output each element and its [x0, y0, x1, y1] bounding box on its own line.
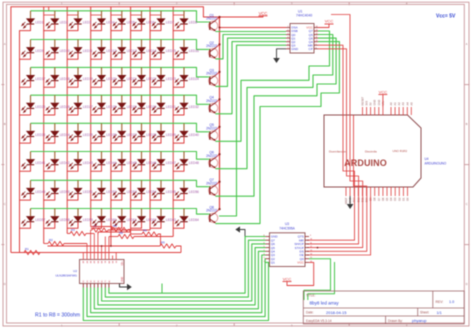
svg-text:LED11: LED11 — [83, 49, 93, 53]
LED LED27 — [67, 95, 93, 115]
pin GND (bottom) — [349, 187, 351, 196]
transistor Q7 2N2222 — [206, 178, 219, 196]
wire resistor output rail — [11, 252, 181, 254]
LED LED12 — [91, 40, 117, 60]
svg-text:LED3: LED3 — [83, 20, 91, 24]
svg-text:D4: D4 — [389, 197, 393, 201]
LED LED50 — [44, 180, 70, 200]
power VCC (top right) — [259, 15, 268, 17]
svg-text:1: 1 — [287, 26, 288, 28]
pin A2 (top) — [398, 107, 400, 115]
svg-text:AREF: AREF — [344, 197, 348, 204]
svg-text:3V3: 3V3 — [365, 100, 369, 105]
wire emitter Q2 to U1 — [215, 35, 286, 59]
LED LED41 — [20, 152, 46, 172]
pin D3 (bottom) — [394, 187, 396, 196]
pin A3 (top) — [402, 107, 404, 115]
svg-text:LED27: LED27 — [83, 105, 93, 109]
pin A0 (top) — [390, 107, 392, 115]
LED LED59 — [67, 209, 93, 229]
LED LED40 — [173, 123, 199, 143]
LED LED46 — [131, 152, 157, 172]
LED LED61 — [111, 209, 137, 229]
wire R7 out — [91, 229, 92, 231]
svg-text:LED13: LED13 — [127, 49, 137, 53]
svg-text:R4: R4 — [113, 224, 117, 228]
svg-text:74HC595A: 74HC595A — [279, 227, 295, 231]
wire emitter Q4 to U1 — [215, 42, 286, 114]
node collector junction Q2 — [218, 43, 220, 45]
svg-text:11: 11 — [316, 37, 318, 39]
svg-text:LED19: LED19 — [83, 77, 93, 81]
svg-text:2: 2 — [263, 257, 264, 259]
svg-text:LED10: LED10 — [60, 49, 70, 53]
wire U1 MR to U3 MR — [307, 45, 355, 240]
svg-text:D6: D6 — [381, 197, 385, 201]
LED LED21 — [111, 67, 137, 87]
IC U3 74HC595A — [263, 233, 312, 267]
wire VCC top bus — [11, 7, 263, 253]
wire Arduino D9 to U3 OE — [307, 196, 371, 255]
svg-text:5C: 5C — [98, 279, 100, 282]
pin GND (top) — [374, 107, 376, 115]
LED LED60 — [91, 209, 117, 229]
power VCC U3 — [287, 262, 314, 285]
svg-text:VCC: VCC — [325, 19, 334, 24]
svg-text:R5: R5 — [161, 241, 165, 245]
wire U1 CP to U3 SH/CP — [307, 49, 359, 244]
wire U2 input pin drops — [82, 253, 84, 260]
svg-text:LED43: LED43 — [83, 161, 93, 165]
wire emitter Q3 to U1 — [215, 38, 286, 86]
wire emitter Q5 to U1 — [215, 31, 329, 141]
wire emitter Q6 to U1 — [215, 35, 332, 169]
svg-text:GND: GND — [291, 47, 299, 51]
ground U2 — [120, 284, 128, 288]
LED LED24 — [173, 67, 199, 87]
wire column 7 bus — [149, 7, 151, 230]
wire column 5 bus — [110, 7, 112, 246]
LED LED29 — [111, 95, 137, 115]
svg-text:D3: D3 — [393, 197, 397, 201]
ground U3 — [240, 230, 266, 237]
LED LED47 — [150, 152, 176, 172]
svg-text:Sheet:: Sheet: — [420, 311, 429, 315]
LED LED19 — [67, 67, 93, 87]
svg-text:D: D — [4, 282, 6, 286]
node collector junction Q6 — [218, 153, 220, 155]
transistor Q1 2N2222 — [206, 13, 219, 31]
LED LED43 — [67, 152, 93, 172]
svg-text:13: 13 — [310, 250, 312, 252]
svg-text:LED55: LED55 — [166, 190, 176, 194]
title block — [303, 291, 464, 324]
LED LED49 — [20, 180, 46, 200]
IC U2 ULN2803AFWG — [80, 260, 125, 288]
svg-text:2N2222: 2N2222 — [206, 126, 217, 130]
wire emitter Q8 to U1 — [215, 42, 339, 224]
LED LED39 — [150, 123, 176, 143]
svg-text:74HC4040: 74HC4040 — [296, 14, 312, 18]
svg-text:LED25: LED25 — [35, 105, 45, 109]
svg-text:A: A — [466, 42, 468, 46]
LED LED42 — [44, 152, 70, 172]
svg-text:2N2222: 2N2222 — [206, 154, 217, 158]
svg-text:LED53: LED53 — [127, 190, 137, 194]
pin D13 (bottom) — [353, 187, 355, 196]
svg-text:D7: D7 — [377, 197, 381, 201]
svg-text:3: 3 — [287, 33, 288, 35]
LED LED22 — [131, 67, 157, 87]
svg-text:LED2: LED2 — [60, 20, 68, 24]
svg-text:14: 14 — [316, 26, 318, 28]
svg-text:LED33: LED33 — [35, 133, 45, 137]
wire green loop 2 — [308, 262, 335, 300]
pin D10 (bottom) — [366, 187, 368, 196]
pin D12 (bottom) — [357, 187, 359, 196]
svg-text:LED7: LED7 — [166, 20, 174, 24]
svg-text:LED34: LED34 — [60, 133, 70, 137]
svg-text:LED50: LED50 — [60, 190, 70, 194]
svg-text:9: 9 — [316, 44, 317, 46]
svg-text:D1: D1 — [401, 197, 405, 201]
LED LED51 — [67, 180, 93, 200]
svg-text:LED57: LED57 — [35, 218, 45, 222]
wire column 3 bus — [66, 7, 68, 234]
LED LED5 — [111, 11, 135, 31]
LED LED14 — [131, 40, 157, 60]
LED LED26 — [44, 95, 70, 115]
svg-text:U2: U2 — [73, 269, 77, 273]
svg-text:A1: A1 — [393, 102, 397, 106]
svg-text:LED47: LED47 — [166, 161, 176, 165]
wire U2 output 5 to U3 — [98, 248, 266, 305]
LED LED53 — [111, 180, 137, 200]
svg-text:VCC: VCC — [379, 90, 388, 95]
svg-text:2018-04-15: 2018-04-15 — [326, 310, 347, 315]
svg-text:LED23: LED23 — [166, 77, 176, 81]
pin D6 (bottom) — [382, 187, 384, 196]
pin GND (top) — [378, 107, 380, 115]
svg-text:LED63: LED63 — [166, 218, 176, 222]
svg-text:LED8: LED8 — [189, 20, 197, 24]
svg-text:10: 10 — [310, 239, 312, 241]
wire column 1 bus — [19, 30, 21, 252]
svg-text:8: 8 — [316, 47, 317, 49]
node junction on ST/CP wire — [317, 247, 319, 249]
svg-text:phyarup: phyarup — [412, 318, 427, 323]
wire column 4 bus — [90, 7, 92, 224]
resistor R8 — [134, 236, 173, 238]
svg-text:R3: R3 — [71, 228, 75, 232]
svg-text:LED39: LED39 — [166, 133, 176, 137]
wire U3 Q0 green loop — [304, 259, 331, 300]
pin VIN (top) — [382, 107, 384, 115]
svg-text:A5: A5 — [409, 102, 413, 106]
svg-text:LED26: LED26 — [60, 105, 70, 109]
LED LED15 — [150, 40, 176, 60]
resistor R6 — [131, 233, 142, 235]
svg-text:TITLE:: TITLE: — [306, 293, 316, 297]
transistor Q8 2N2222 — [206, 206, 219, 224]
wire column 5 feed rail — [48, 245, 161, 247]
svg-text:CD+: CD+ — [122, 260, 124, 265]
LED LED4 — [91, 11, 115, 31]
LED LED64 — [173, 209, 199, 229]
svg-text:D: D — [466, 282, 468, 286]
node collector junction Q4 — [218, 98, 220, 100]
LED LED33 — [20, 123, 46, 143]
svg-text:6: 6 — [287, 44, 288, 46]
svg-text:R1 to R8 = 300ohm: R1 to R8 = 300ohm — [35, 313, 80, 319]
LED LED38 — [131, 123, 157, 143]
svg-text:U4: U4 — [425, 157, 429, 161]
svg-text:1/1: 1/1 — [437, 311, 442, 315]
svg-text:GND: GND — [373, 100, 377, 106]
svg-text:VCC: VCC — [259, 11, 268, 16]
svg-text:LED16: LED16 — [189, 49, 199, 53]
wire row 5 green line — [31, 123, 209, 132]
wire U2 output 8 jog — [161, 284, 163, 294]
wire column 2 bus — [43, 7, 45, 244]
LED LED63 — [150, 209, 176, 229]
node collector junction Q5 — [218, 126, 220, 128]
LED LED11 — [67, 40, 93, 60]
node collector junction Q1 — [218, 16, 220, 18]
transistor Q4 2N2222 — [206, 96, 219, 114]
wire U1 Q3 pin to Q8 base — [219, 45, 286, 216]
LED LED16 — [173, 40, 199, 60]
LED LED18 — [44, 67, 70, 87]
wire U2 output 1 to U3 — [83, 262, 268, 320]
LED LED8 — [173, 11, 197, 31]
LED LED62 — [131, 209, 157, 229]
svg-text:11: 11 — [310, 242, 312, 244]
wire U1 OSA to VCC bus — [220, 27, 287, 29]
pin A5 (top) — [410, 107, 412, 115]
svg-text:2: 2 — [287, 30, 288, 32]
svg-text:ARDUINOUNO: ARDUINOUNO — [425, 162, 447, 166]
svg-text:8C: 8C — [109, 279, 111, 282]
svg-text:LED15: LED15 — [166, 49, 176, 53]
svg-text:2N2222: 2N2222 — [206, 44, 217, 48]
LED LED56 — [173, 180, 199, 200]
svg-text:LED64: LED64 — [189, 218, 199, 222]
svg-text:4: 4 — [287, 37, 288, 39]
svg-text:LED56: LED56 — [189, 190, 199, 194]
svg-text:ARDUINO: ARDUINO — [344, 158, 387, 168]
LED LED31 — [150, 95, 176, 115]
LED LED13 — [111, 40, 137, 60]
resistor R1 — [24, 250, 40, 254]
svg-text:C: C — [4, 202, 6, 206]
LED LED45 — [111, 152, 137, 172]
svg-text:LED17: LED17 — [35, 77, 45, 81]
wire Arduino D10 to U3 DS — [307, 15, 363, 248]
svg-text:10: 10 — [316, 40, 318, 42]
wire U2 output 4 to U3 — [94, 251, 265, 308]
LED LED28 — [91, 95, 117, 115]
svg-text:VCC: VCC — [297, 261, 304, 265]
svg-text:LED48: LED48 — [189, 161, 199, 165]
pin D4 (bottom) — [390, 187, 392, 196]
pin D2 (bottom) — [398, 187, 400, 196]
svg-text:A4: A4 — [405, 102, 409, 106]
IC U4 ARDUINOUNO — [324, 115, 421, 187]
svg-text:8by8 led array: 8by8 led array — [310, 301, 340, 306]
svg-text:D2: D2 — [397, 197, 401, 201]
LED LED55 — [150, 180, 176, 200]
LED LED10 — [44, 40, 70, 60]
svg-text:Duemilanove: Duemilanove — [329, 150, 346, 154]
LED LED7 — [150, 11, 174, 31]
LED LED3 — [67, 11, 91, 31]
pin D1 (bottom) — [402, 187, 404, 196]
svg-text:B: B — [466, 122, 468, 126]
pin 5V (top) — [370, 107, 372, 115]
svg-text:LED58: LED58 — [60, 218, 70, 222]
power VCC U1 — [318, 24, 329, 28]
pin RESET (top) — [362, 107, 364, 115]
svg-text:A: A — [4, 42, 6, 46]
LED LED37 — [111, 123, 137, 143]
wire R5 out — [176, 246, 181, 253]
svg-text:A2: A2 — [397, 102, 401, 106]
LED LED34 — [44, 123, 70, 143]
svg-text:LED29: LED29 — [127, 105, 137, 109]
svg-text:LED35: LED35 — [83, 133, 93, 137]
svg-text:12: 12 — [310, 246, 312, 248]
svg-text:Diecimila: Diecimila — [365, 150, 377, 154]
svg-text:VCC: VCC — [283, 277, 292, 282]
svg-text:LED32: LED32 — [189, 105, 199, 109]
svg-text:B: B — [4, 122, 6, 126]
svg-text:LED42: LED42 — [60, 161, 70, 165]
svg-text:R2: R2 — [49, 238, 53, 242]
wire row 7 green line — [31, 180, 209, 186]
svg-text:LED31: LED31 — [166, 105, 176, 109]
pin A1 (top) — [394, 107, 396, 115]
transistor Q2 2N2222 — [206, 41, 219, 59]
resistor R2 — [44, 243, 48, 245]
svg-text:R8: R8 — [119, 231, 123, 235]
LED LED2 — [44, 11, 68, 31]
svg-text:1: 1 — [263, 261, 264, 263]
transistor Q3 2N2222 — [206, 68, 219, 86]
svg-text:5V: 5V — [369, 102, 373, 105]
wire Arduino D11 to U3 ST/CP — [307, 115, 367, 251]
wire R3 out — [86, 233, 94, 235]
svg-text:2N2222: 2N2222 — [206, 209, 217, 213]
wire U2 output 3 to U3 — [91, 255, 266, 313]
svg-text:14: 14 — [310, 254, 312, 256]
LED LED48 — [173, 152, 199, 172]
svg-text:5: 5 — [287, 40, 288, 42]
wire U2 output 6 to U3 — [102, 244, 266, 301]
svg-text:9: 9 — [310, 235, 311, 237]
LED LED25 — [20, 95, 46, 115]
wire column 6 bus — [130, 7, 132, 234]
svg-text:D8: D8 — [373, 197, 377, 201]
node collector junction Q7 — [218, 181, 220, 183]
svg-text:1.0: 1.0 — [449, 300, 454, 304]
svg-text:REV:: REV: — [436, 300, 444, 304]
svg-text:LED51: LED51 — [83, 190, 93, 194]
svg-text:LED24: LED24 — [189, 77, 199, 81]
svg-text:A3: A3 — [401, 102, 405, 106]
svg-text:LED4: LED4 — [106, 20, 114, 24]
pin AREF (bottom) — [345, 187, 347, 196]
svg-text:GND: GND — [377, 100, 381, 106]
svg-text:LED18: LED18 — [60, 77, 70, 81]
pin D11 (bottom) — [361, 187, 363, 196]
svg-text:Date:: Date: — [306, 311, 314, 315]
wire row 3 green line — [31, 67, 209, 77]
svg-text:Vcc= 5V: Vcc= 5V — [436, 14, 456, 20]
LED LED9 — [20, 40, 44, 60]
svg-text:Drawn By:: Drawn By: — [388, 319, 403, 323]
resistor R7 — [108, 229, 150, 231]
svg-text:D0: D0 — [406, 197, 410, 201]
svg-text:LED49: LED49 — [35, 190, 45, 194]
wire R8 out — [109, 236, 118, 238]
wire R2 out — [64, 243, 87, 245]
svg-text:LED41: LED41 — [35, 161, 45, 165]
wire row 2 green line — [31, 40, 209, 50]
svg-text:U3: U3 — [285, 222, 289, 226]
LED LED52 — [91, 180, 117, 200]
LED LED23 — [150, 67, 176, 87]
power VCC Arduino — [382, 95, 384, 108]
wire U2 output 2 to U3 — [87, 259, 266, 317]
svg-text:R1: R1 — [25, 247, 29, 251]
svg-text:2N2222: 2N2222 — [206, 72, 217, 76]
wire R6 out — [158, 234, 161, 246]
LED LED20 — [91, 67, 117, 87]
LED LED17 — [20, 67, 46, 87]
LED LED1 — [20, 11, 44, 31]
svg-text:C: C — [466, 202, 468, 206]
pin D5 (bottom) — [386, 187, 388, 196]
wire row 6 green line — [31, 152, 209, 160]
pin 3V3 (top) — [366, 107, 368, 115]
LED LED54 — [131, 180, 157, 200]
resistor R3 — [67, 233, 70, 235]
wire row 8 green line — [31, 209, 209, 215]
wire U2 output 8 to U3 — [109, 237, 266, 294]
svg-text:2N2222: 2N2222 — [206, 181, 217, 185]
pin A4 (top) — [406, 107, 408, 115]
wire row 4 green line — [31, 95, 209, 104]
wire R4 out — [98, 230, 130, 235]
svg-text:UNO R1R2: UNO R1R2 — [393, 149, 408, 153]
svg-text:CP: CP — [308, 47, 312, 51]
svg-text:R6: R6 — [143, 229, 147, 233]
transistor Q6 2N2222 — [206, 151, 219, 169]
LED LED32 — [173, 95, 199, 115]
svg-text:EasyEDA V5.3-14: EasyEDA V5.3-14 — [306, 319, 332, 323]
svg-text:LED45: LED45 — [127, 161, 137, 165]
svg-text:LED40: LED40 — [189, 133, 199, 137]
svg-text:RESET: RESET — [361, 96, 365, 105]
svg-text:13: 13 — [316, 30, 318, 32]
svg-text:LED37: LED37 — [127, 133, 137, 137]
LED LED35 — [67, 123, 93, 143]
LED LED6 — [131, 11, 155, 31]
pin D7 (bottom) — [378, 187, 380, 196]
svg-text:LED59: LED59 — [83, 218, 93, 222]
resistor R4 — [91, 224, 112, 230]
